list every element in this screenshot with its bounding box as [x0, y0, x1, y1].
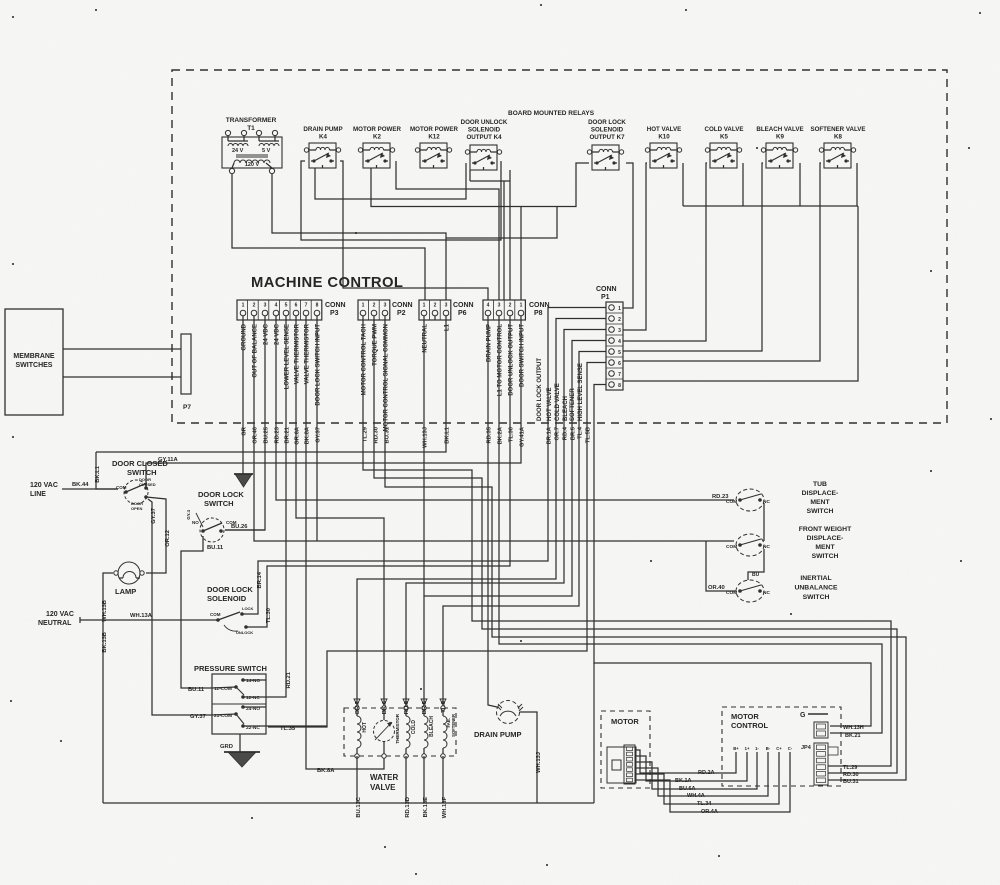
svg-text:8: 8 [618, 383, 621, 389]
label inertial unbalance switch [794, 575, 838, 601]
label front weight displacement switch [799, 526, 852, 560]
svg-text:1-: 1- [755, 746, 759, 751]
label MACHINE CONTROL [251, 275, 403, 291]
svg-text:RD.13D: RD.13D [405, 797, 411, 818]
svg-text:TL.35: TL.35 [280, 726, 296, 732]
svg-text:P1: P1 [601, 294, 610, 301]
svg-text:WH.13B: WH.13B [102, 600, 108, 622]
svg-text:RD.23: RD.23 [712, 494, 729, 500]
wire K2.right to conn P8 pin3 [396, 161, 499, 300]
svg-text:GY.4: GY.4 [186, 510, 191, 520]
svg-text:BU.11: BU.11 [207, 545, 224, 551]
svg-text:OR.40: OR.40 [708, 585, 725, 591]
svg-text:5: 5 [618, 350, 621, 356]
svg-text:BK.8A: BK.8A [317, 768, 335, 774]
connector CONN P2 [358, 300, 413, 320]
wire GY.37 junction drop [316, 320, 318, 541]
svg-text:TL.29: TL.29 [843, 765, 857, 771]
svg-text:OUTPUT K7: OUTPUT K7 [589, 134, 625, 141]
svg-text:MOTOR: MOTOR [731, 712, 759, 721]
svg-text:BU.31: BU.31 [843, 779, 859, 785]
labels P2 pin functions [362, 324, 390, 431]
svg-text:RD.30: RD.30 [843, 772, 859, 778]
svg-text:OR.12: OR.12 [165, 530, 171, 547]
wire transformer left to conn P6 pin1 [232, 174, 425, 300]
wire BK.L1 drop to switch [96, 452, 118, 489]
svg-text:INERTIAL: INERTIAL [800, 575, 831, 582]
svg-text:P7: P7 [183, 404, 191, 411]
svg-text:BK.6: BK.6 [382, 700, 388, 714]
wire membrane to P7 upper [63, 348, 181, 350]
relay K10 hot valve [645, 126, 681, 168]
svg-text:120 VAC: 120 VAC [46, 611, 74, 618]
svg-text:12-NC: 12-NC [246, 695, 260, 701]
svg-text:OR.4A: OR.4A [701, 809, 718, 815]
labels P1 pin functions [537, 358, 584, 421]
svg-text:CONN: CONN [392, 302, 413, 309]
svg-text:P2: P2 [397, 310, 406, 317]
wire membrane to P7 lower [63, 376, 181, 378]
svg-text:MOTOR POWER: MOTOR POWER [410, 126, 459, 133]
wire L1 run to P8 pin1 [520, 207, 522, 301]
svg-text:LINE: LINE [30, 491, 46, 498]
svg-text:CONN: CONN [453, 302, 474, 309]
wire P1 pin4 bleach [424, 341, 606, 709]
svg-text:3: 3 [445, 303, 448, 309]
svg-text:P3: P3 [330, 310, 339, 317]
wire neutral bottom bus [103, 802, 594, 804]
svg-text:2: 2 [253, 303, 256, 309]
wire motor OR.4A [635, 752, 790, 812]
connector P7 [181, 334, 191, 411]
svg-text:THERMISTOR: THERMISTOR [395, 713, 400, 743]
svg-text:TL.9: TL.9 [441, 700, 447, 713]
svg-text:RD.2A: RD.2A [698, 770, 715, 776]
wire bus to conn P1 pin8 [623, 206, 858, 381]
svg-text:TRANSFORMER: TRANSFORMER [226, 117, 277, 124]
svg-text:WH.13H: WH.13H [843, 725, 864, 731]
wire BU.11 from NO [181, 536, 224, 688]
svg-text:P8: P8 [534, 310, 543, 317]
pressure switch ground [220, 734, 260, 767]
svg-text:UNBALANCE: UNBALANCE [794, 585, 838, 592]
wire GY.41A door switch input [155, 320, 521, 463]
labels P6 pin functions [423, 323, 451, 352]
svg-text:BK.1A: BK.1A [675, 778, 692, 784]
wire OR.40 branch to inertial COM [706, 541, 736, 591]
relay K9 bleach valve [756, 126, 803, 168]
svg-text:VALVE: VALVE [370, 783, 396, 792]
svg-text:BU.26: BU.26 [231, 524, 248, 530]
svg-text:5: 5 [285, 303, 288, 309]
svg-text:MENT: MENT [810, 499, 830, 506]
svg-text:C+: C+ [776, 746, 782, 751]
svg-text:K10: K10 [658, 134, 670, 141]
svg-text:TL.30: TL.30 [266, 608, 272, 623]
wire motor WH.4A [635, 752, 768, 796]
svg-text:3: 3 [618, 328, 621, 334]
wire door open contact to lamp [146, 497, 166, 573]
drain pump [474, 701, 523, 740]
svg-text:T1: T1 [247, 125, 255, 132]
svg-text:FRONT WEIGHT: FRONT WEIGHT [799, 526, 852, 533]
svg-text:3: 3 [384, 303, 387, 309]
connector CONN P6 [419, 300, 474, 320]
wire door closed NO to GY.11A [146, 457, 178, 487]
svg-text:WH.13F: WH.13F [442, 797, 448, 819]
svg-text:WATER: WATER [370, 773, 399, 782]
svg-text:CONN: CONN [596, 286, 617, 293]
svg-text:SWITCH: SWITCH [807, 508, 834, 515]
svg-text:UNLOCK: UNLOCK [236, 630, 253, 635]
door lock switch [186, 490, 244, 542]
svg-text:COLD: COLD [411, 720, 417, 735]
svg-text:DISPLACE-: DISPLACE- [807, 535, 844, 542]
svg-text:COM: COM [726, 544, 737, 550]
svg-text:6: 6 [618, 361, 621, 367]
label BR.14 wire [257, 571, 263, 588]
wire motor BU.6A [635, 752, 757, 789]
svg-text:120 VAC: 120 VAC [30, 482, 58, 489]
svg-text:JP4: JP4 [801, 745, 812, 751]
svg-text:OR.7: OR.7 [355, 701, 361, 715]
svg-text:K12: K12 [428, 134, 440, 141]
labels P3 pin functions [242, 323, 322, 405]
label 120 VAC LINE [30, 482, 58, 498]
wire K8.right to bus [856, 163, 858, 206]
wire BR.21 to pressure 12-NC [266, 320, 286, 697]
wire L1 valve bus [683, 205, 858, 207]
svg-text:DRAIN PUMP: DRAIN PUMP [474, 730, 522, 739]
svg-text:BU.11: BU.11 [188, 687, 205, 693]
svg-text:7: 7 [618, 372, 621, 378]
wire RD.30 torque pwm [374, 320, 897, 773]
svg-text:BU.6A: BU.6A [679, 786, 696, 792]
svg-text:K9: K9 [776, 134, 784, 141]
relay K7 door lock solenoid output [587, 119, 626, 170]
svg-text:COM: COM [116, 485, 127, 490]
tub displacement switch [726, 489, 770, 511]
svg-text:120 V: 120 V [245, 162, 260, 168]
labels water valve top wires [355, 700, 447, 714]
wire K4.left L1 run [301, 161, 501, 240]
svg-text:5 V: 5 V [262, 148, 271, 154]
svg-text:SWITCHES: SWITCHES [16, 362, 53, 369]
connector CONN P3 [237, 300, 346, 320]
svg-text:DOOR LOCK: DOOR LOCK [198, 490, 244, 499]
front weight displacement switch [726, 534, 770, 556]
svg-text:K8: K8 [834, 134, 842, 141]
wire bleach valve bottom [423, 756, 429, 817]
label OR.40 [708, 585, 725, 591]
svg-text:NO: NO [192, 520, 199, 525]
svg-text:3: 3 [498, 303, 501, 309]
wire BU.26 [225, 524, 265, 530]
svg-text:DOOR UNLOCK: DOOR UNLOCK [461, 119, 508, 126]
svg-text:B-: B- [766, 746, 771, 751]
labels motor wires [675, 770, 718, 815]
svg-text:BU.13C: BU.13C [356, 796, 362, 817]
wire K5.left to conn P1 pin4 [623, 163, 707, 341]
svg-text:BK.44: BK.44 [72, 482, 89, 488]
wire K9.right to bus [799, 163, 801, 206]
label OR.12 wire [165, 530, 171, 547]
wire P1 pin3 cold valve [406, 330, 606, 709]
svg-text:RD.21: RD.21 [286, 671, 292, 688]
svg-text:7: 7 [305, 303, 308, 309]
connector CONN P8 [483, 300, 550, 320]
relay K4 door unlock solenoid output [461, 119, 510, 181]
label RD.23 [712, 494, 729, 500]
svg-text:PRESSURE SWITCH: PRESSURE SWITCH [194, 664, 267, 673]
svg-text:CONN: CONN [325, 302, 346, 309]
svg-text:HOT: HOT [362, 722, 368, 733]
inertial unbalance switch [726, 580, 770, 602]
svg-text:SOFTENER: SOFTENER [451, 714, 456, 737]
svg-text:SOLENOID: SOLENOID [468, 127, 501, 134]
transformer T1 [222, 117, 282, 174]
svg-text:MOTOR POWER: MOTOR POWER [353, 126, 402, 133]
svg-text:SOLENOID: SOLENOID [591, 127, 624, 134]
wire transformer right to conn P6 pin3 [272, 174, 446, 300]
svg-text:1+: 1+ [745, 746, 750, 751]
wire TL.35 [266, 726, 327, 732]
svg-text:1: 1 [520, 303, 523, 309]
svg-text:1: 1 [242, 303, 245, 309]
svg-text:2: 2 [434, 303, 437, 309]
wire BK.8A to valve thermistor bottom [306, 320, 384, 769]
svg-text:OUTPUT K4: OUTPUT K4 [466, 134, 502, 141]
wire RD.35 to drain pump [488, 320, 497, 707]
wire motor RD.2A [635, 750, 736, 773]
wire GR.6A to valve thermistor top [296, 320, 384, 708]
svg-text:SWITCH: SWITCH [127, 468, 157, 477]
ground symbol below P3 [234, 474, 253, 487]
lamp [114, 562, 144, 596]
svg-text:K5: K5 [720, 134, 728, 141]
svg-text:BK.21: BK.21 [845, 733, 861, 739]
label tub displacement switch [802, 481, 839, 515]
water valve assembly [344, 699, 456, 792]
svg-text:GRD: GRD [220, 744, 233, 750]
wire K4.right to conn P8 pin4 [340, 161, 488, 300]
relay K8 softener valve [810, 126, 865, 168]
wire K4du output b to P8 pin2 [509, 181, 511, 300]
svg-text:BU: BU [752, 572, 760, 578]
svg-text:SOLENOID: SOLENOID [207, 594, 247, 603]
label TL.30 wire [266, 608, 272, 623]
wire BK.2A L1 to motor control [499, 320, 882, 733]
wire motor BK.1A [635, 752, 747, 781]
svg-text:NC: NC [763, 590, 770, 596]
svg-text:4: 4 [275, 303, 278, 309]
svg-text:CONN: CONN [529, 302, 550, 309]
svg-text:LAMP: LAMP [115, 587, 136, 596]
svg-text:C-: C- [788, 746, 793, 751]
wire P1 pin6 high level sense [268, 363, 606, 728]
labels WH.13B BK.13B [102, 600, 108, 653]
wire BU.31 signal common [385, 320, 906, 780]
svg-text:HOT VALVE: HOT VALVE [647, 126, 682, 133]
pressure switch [194, 664, 267, 734]
svg-text:K2: K2 [373, 134, 381, 141]
membrane switches box [5, 309, 63, 415]
wire TL.29 motor control tach [363, 320, 891, 766]
wire softener valve bottom [442, 756, 448, 818]
svg-text:2: 2 [373, 303, 376, 309]
svg-text:BLEACH: BLEACH [429, 716, 435, 737]
wire K9.left to conn P1 pin5 [623, 163, 763, 351]
svg-text:MEMBRANE: MEMBRANE [13, 353, 55, 360]
svg-text:BK.13B: BK.13B [102, 632, 108, 653]
wire neutral loop around motor area [594, 663, 871, 803]
svg-text:SWITCH: SWITCH [803, 594, 830, 601]
wire L1 spur [446, 207, 557, 238]
wire BU.25 to door lock switch COM [225, 320, 265, 530]
motor control [722, 707, 841, 786]
label BK.8A [317, 768, 335, 774]
svg-text:DRAIN PUMP: DRAIN PUMP [303, 126, 342, 133]
svg-text:TL.34: TL.34 [697, 801, 712, 807]
label BU.11 at pressure [188, 687, 205, 693]
door closed switch [112, 459, 168, 511]
svg-text:GY.37: GY.37 [190, 714, 206, 720]
wire P1 pin1 door lock output [242, 308, 606, 615]
svg-text:SOFTENER: SOFTENER [570, 388, 576, 421]
label BOARD MOUNTED RELAYS [508, 110, 595, 117]
wire K5.right to bus [742, 163, 744, 206]
svg-text:SWITCH: SWITCH [204, 499, 234, 508]
labels motor control wires right [843, 725, 864, 785]
wire front NC to inertial [748, 549, 764, 580]
svg-text:MENT: MENT [815, 544, 835, 551]
motor [601, 711, 650, 788]
svg-text:8: 8 [316, 303, 319, 309]
svg-text:2: 2 [618, 317, 621, 323]
wire K4.bottom to K4du.left [315, 163, 466, 199]
wire cold valve bottom [405, 756, 411, 818]
wire lamp left to neutral bus [103, 573, 113, 803]
svg-text:BR.5: BR.5 [422, 700, 428, 714]
wire RD.23 to tub switch [276, 320, 734, 500]
machine control board dashed border [172, 70, 947, 423]
svg-text:CONTROL: CONTROL [731, 721, 768, 730]
svg-text:MOTOR: MOTOR [611, 717, 639, 726]
svg-text:6: 6 [295, 303, 298, 309]
relay K12 motor power [410, 126, 459, 168]
relay K4 drain pump [303, 126, 342, 168]
svg-text:OPEN: OPEN [131, 506, 142, 511]
svg-text:3: 3 [264, 303, 267, 309]
labels wire names below border [242, 426, 592, 448]
wire motor TL.34 [635, 752, 779, 804]
svg-text:BLEACH VALVE: BLEACH VALVE [756, 126, 803, 133]
svg-text:GY.37: GY.37 [151, 508, 157, 524]
door lock solenoid [207, 585, 253, 635]
svg-text:DOOR LOCK OUTPUT: DOOR LOCK OUTPUT [537, 358, 543, 421]
label 120 VAC NEUTRAL [38, 611, 74, 627]
wire BK.L1 to line bus [96, 320, 446, 452]
wire P1 pin5 softener [443, 352, 606, 709]
wire K10.left to conn P1 pin3 [623, 163, 647, 330]
label BK.L1 wire [95, 465, 101, 483]
relay K2 motor power [353, 126, 402, 168]
svg-text:COM: COM [210, 612, 221, 617]
wire K10.right to bus [682, 163, 684, 206]
svg-text:BR.14: BR.14 [257, 571, 263, 588]
svg-text:P6: P6 [458, 310, 467, 317]
svg-text:SOFTENER VALVE: SOFTENER VALVE [810, 126, 865, 133]
connector CONN P1 [596, 286, 623, 390]
svg-text:24 V: 24 V [232, 148, 244, 154]
svg-text:NEUTRAL: NEUTRAL [38, 620, 72, 627]
svg-text:WH.13J: WH.13J [536, 752, 542, 773]
svg-text:1: 1 [423, 303, 426, 309]
label RD.21 wire [286, 671, 292, 688]
wire P1 pin8 aux [594, 385, 606, 665]
wire drain pump to neutral [520, 712, 542, 803]
svg-text:K4: K4 [319, 134, 327, 141]
wire WH.13J neutral drop [423, 320, 425, 596]
wire L1 relay common run [371, 163, 589, 207]
svg-text:DOOR LOCK: DOOR LOCK [588, 119, 626, 126]
wire TL.30 to door lock solenoid unlock [246, 320, 510, 627]
svg-text:DISPLACE-: DISPLACE- [802, 490, 839, 497]
wire P1 pin2 hot valve [357, 319, 606, 709]
relay K5 cold valve [705, 126, 744, 168]
svg-text:4: 4 [618, 339, 621, 345]
svg-text:G: G [800, 712, 806, 719]
svg-text:LOCK: LOCK [242, 606, 253, 611]
wire K4du output a [503, 181, 505, 300]
wire hot valve bottom [356, 756, 362, 818]
svg-text:SWITCH: SWITCH [812, 553, 839, 560]
svg-text:WH.4A: WH.4A [687, 793, 705, 799]
svg-text:COLD VALVE: COLD VALVE [705, 126, 744, 133]
svg-text:CLOSED: CLOSED [139, 482, 156, 487]
svg-text:GY.11A: GY.11A [158, 457, 178, 463]
wire K8.left to conn P1 pin6 [623, 163, 821, 361]
svg-text:BOARD MOUNTED RELAYS: BOARD MOUNTED RELAYS [508, 110, 595, 117]
wire GY.37 to pressure 21-COM [148, 499, 212, 720]
wire tub NC to front weight [763, 503, 765, 541]
wire K7.right to conn P1 pin1 [623, 163, 633, 308]
wire OR.40 to displacement chain [254, 320, 734, 541]
wire BK.44 line input [62, 482, 118, 489]
wire GR ground drop [242, 320, 244, 474]
svg-text:1: 1 [618, 306, 621, 312]
svg-text:WH.13A: WH.13A [130, 613, 153, 619]
wire WH.13A neutral [80, 613, 218, 623]
svg-text:B+: B+ [733, 746, 739, 751]
labels P8 pin functions [487, 324, 526, 396]
svg-text:1: 1 [362, 303, 365, 309]
svg-text:2: 2 [509, 303, 512, 309]
svg-text:RD.9: RD.9 [404, 700, 410, 714]
svg-text:TUB: TUB [813, 481, 827, 488]
svg-text:BK.13E: BK.13E [423, 797, 429, 817]
svg-text:14-NO: 14-NO [246, 678, 260, 684]
svg-text:4: 4 [487, 303, 490, 309]
svg-text:DOOR LOCK: DOOR LOCK [207, 585, 253, 594]
